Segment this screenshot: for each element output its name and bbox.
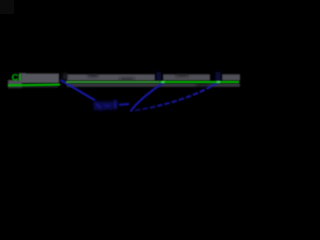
green bond line, Cl to vertex: [8, 83, 60, 86]
svg-text:NH: NH: [94, 101, 113, 113]
dark stub above crossing A: [157, 72, 162, 81]
glint at crossing A: [161, 81, 165, 83]
corner square: [0, 0, 14, 14]
gray carbon-chain band, right segment: [67, 74, 240, 87]
blue bond dash right of NH: [119, 103, 129, 106]
gray carbon-chain band, left segment around Cl: [8, 73, 59, 88]
green bond line, vertex to right end: [66, 81, 160, 83]
glint at crossing B: [216, 81, 220, 83]
NH label (blue): [94, 100, 116, 113]
svg-text:Cl: Cl: [12, 73, 22, 84]
band mottling: [88, 74, 210, 87]
green bond line, bright right stretch: [160, 81, 239, 83]
blue bond B long shallow rise across the chain: [135, 82, 219, 111]
blue bond A rising across the chain: [131, 83, 164, 112]
faint shadow above vertex: [63, 73, 67, 80]
blue bond: chain vertex down to N: [61, 80, 96, 100]
dark stub above crossing B: [216, 72, 221, 82]
Cl atom label: [12, 73, 22, 84]
